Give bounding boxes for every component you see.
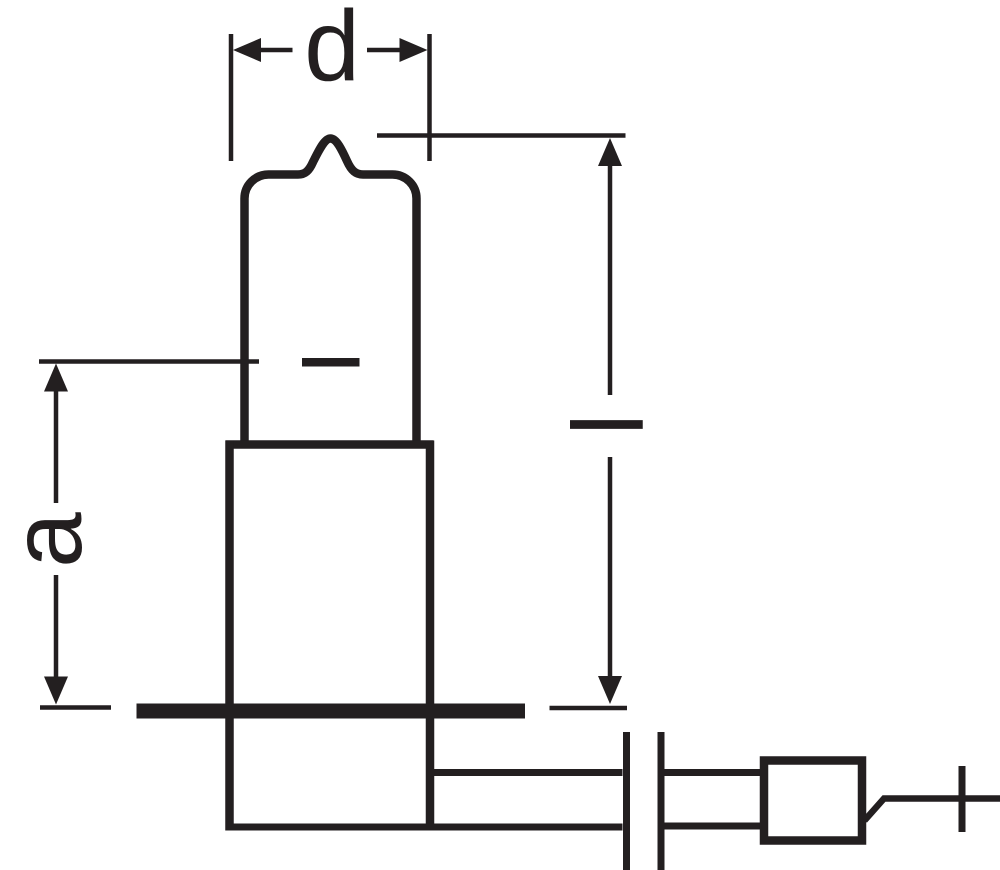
dimension a: top reference line — [39, 359, 259, 364]
seal bar 2 — [658, 732, 665, 870]
dimension a: bottom reference line — [40, 705, 111, 710]
dimension d: left arrow — [233, 38, 293, 62]
dimension a: down arrow — [44, 575, 68, 705]
terminal diagonal and end line — [865, 799, 1000, 821]
wire bottom line (seal to terminal) — [665, 823, 765, 830]
svg-text:l: l — [553, 413, 665, 435]
terminal end tick — [959, 766, 966, 832]
bulb glass envelope with tip — [245, 139, 417, 442]
dimension l: down arrow — [598, 457, 622, 704]
dimension a: up arrow — [44, 364, 68, 504]
extension line: d right tick — [427, 34, 432, 161]
wire top line (seal to terminal) — [665, 769, 765, 776]
svg-text:a: a — [0, 512, 103, 568]
dimension l: up arrow — [598, 138, 622, 395]
base right wall — [426, 441, 435, 831]
dimension l: bottom reference line — [550, 706, 628, 711]
base flange (thick bar) — [137, 704, 526, 719]
terminal block — [764, 761, 862, 841]
base bottom edge / lead wire bottom line — [226, 824, 623, 831]
lead wire top line (base to seal) — [426, 769, 623, 776]
dimension l: top reference line — [377, 133, 626, 138]
filament mark — [302, 358, 360, 367]
base top edge — [226, 440, 434, 449]
svg-text:d: d — [304, 0, 360, 102]
dimension d: right arrow — [367, 38, 428, 62]
base left wall — [225, 441, 234, 831]
seal bar 1 — [623, 732, 630, 870]
extension line: d left tick — [229, 34, 234, 161]
